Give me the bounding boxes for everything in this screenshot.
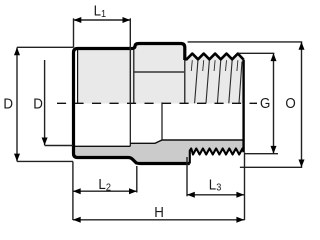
H dimension line	[73, 219, 245, 221]
centerline (dashed)	[57, 102, 257, 104]
svg-text:G: G	[260, 94, 270, 111]
bottom section cut fill (grey)	[74, 140, 244, 164]
thread end face	[242, 60, 244, 153]
G dimension line	[273, 53, 275, 153]
outer D arrows	[14, 47, 20, 55]
outer D top extension	[17, 46, 74, 48]
L3 dimension line	[187, 194, 245, 196]
inner D dimension line	[44, 60, 46, 145]
thin bore profile line (section cavity boundary)	[74, 140, 244, 146]
inner D arrow	[42, 138, 48, 146]
G top extension	[239, 52, 275, 54]
O arrows	[299, 42, 305, 50]
L1 right extension	[129, 18, 131, 103]
H arrows	[73, 217, 81, 223]
L1 arrows	[74, 17, 82, 23]
L3 arrows	[187, 192, 195, 198]
L1 left extension	[73, 18, 75, 47]
G bottom extension	[245, 153, 278, 155]
main outline (thick) : socket + collar	[74, 44, 185, 101]
L2 right extension	[136, 166, 138, 193]
socket entry chamfer edge	[77, 50, 79, 104]
thread top zigzag outline	[185, 54, 244, 60]
outer D bottom extension	[17, 160, 73, 162]
arrowheads	[14, 17, 305, 223]
svg-text:D: D	[33, 95, 43, 112]
L2 dimension line	[73, 190, 137, 192]
L1 dimension line	[74, 19, 131, 21]
inner D bottom extension	[45, 145, 73, 147]
L2 arrows	[73, 188, 81, 194]
thread flank hatch lines: short crest lines	[191, 60, 238, 71]
internal bore step edge line	[161, 103, 163, 141]
outer D dimension line	[16, 47, 18, 161]
internal socket depth edge line	[129, 104, 131, 147]
svg-text:O: O	[285, 94, 296, 111]
thread bottom zigzag outline	[190, 149, 244, 164]
L3 left extension	[186, 157, 188, 196]
collar step edge line (upper half)	[133, 46, 135, 104]
collar right edge below threads	[184, 59, 186, 103]
socket face chamfer white strip	[75, 50, 77, 104]
G arrows	[271, 53, 277, 61]
svg-text:D: D	[3, 95, 13, 112]
L3/H right extension	[244, 152, 246, 220]
L2/H left extension	[72, 162, 74, 221]
O top extension	[188, 41, 303, 43]
collar chamfer line	[134, 71, 184, 73]
fitting body upper-half fill	[74, 44, 244, 104]
thread flank hatch lines: long root lines	[195, 60, 242, 104]
svg-text:H: H	[154, 203, 164, 220]
O dimension line	[301, 42, 303, 167]
O bottom extension	[240, 166, 302, 168]
